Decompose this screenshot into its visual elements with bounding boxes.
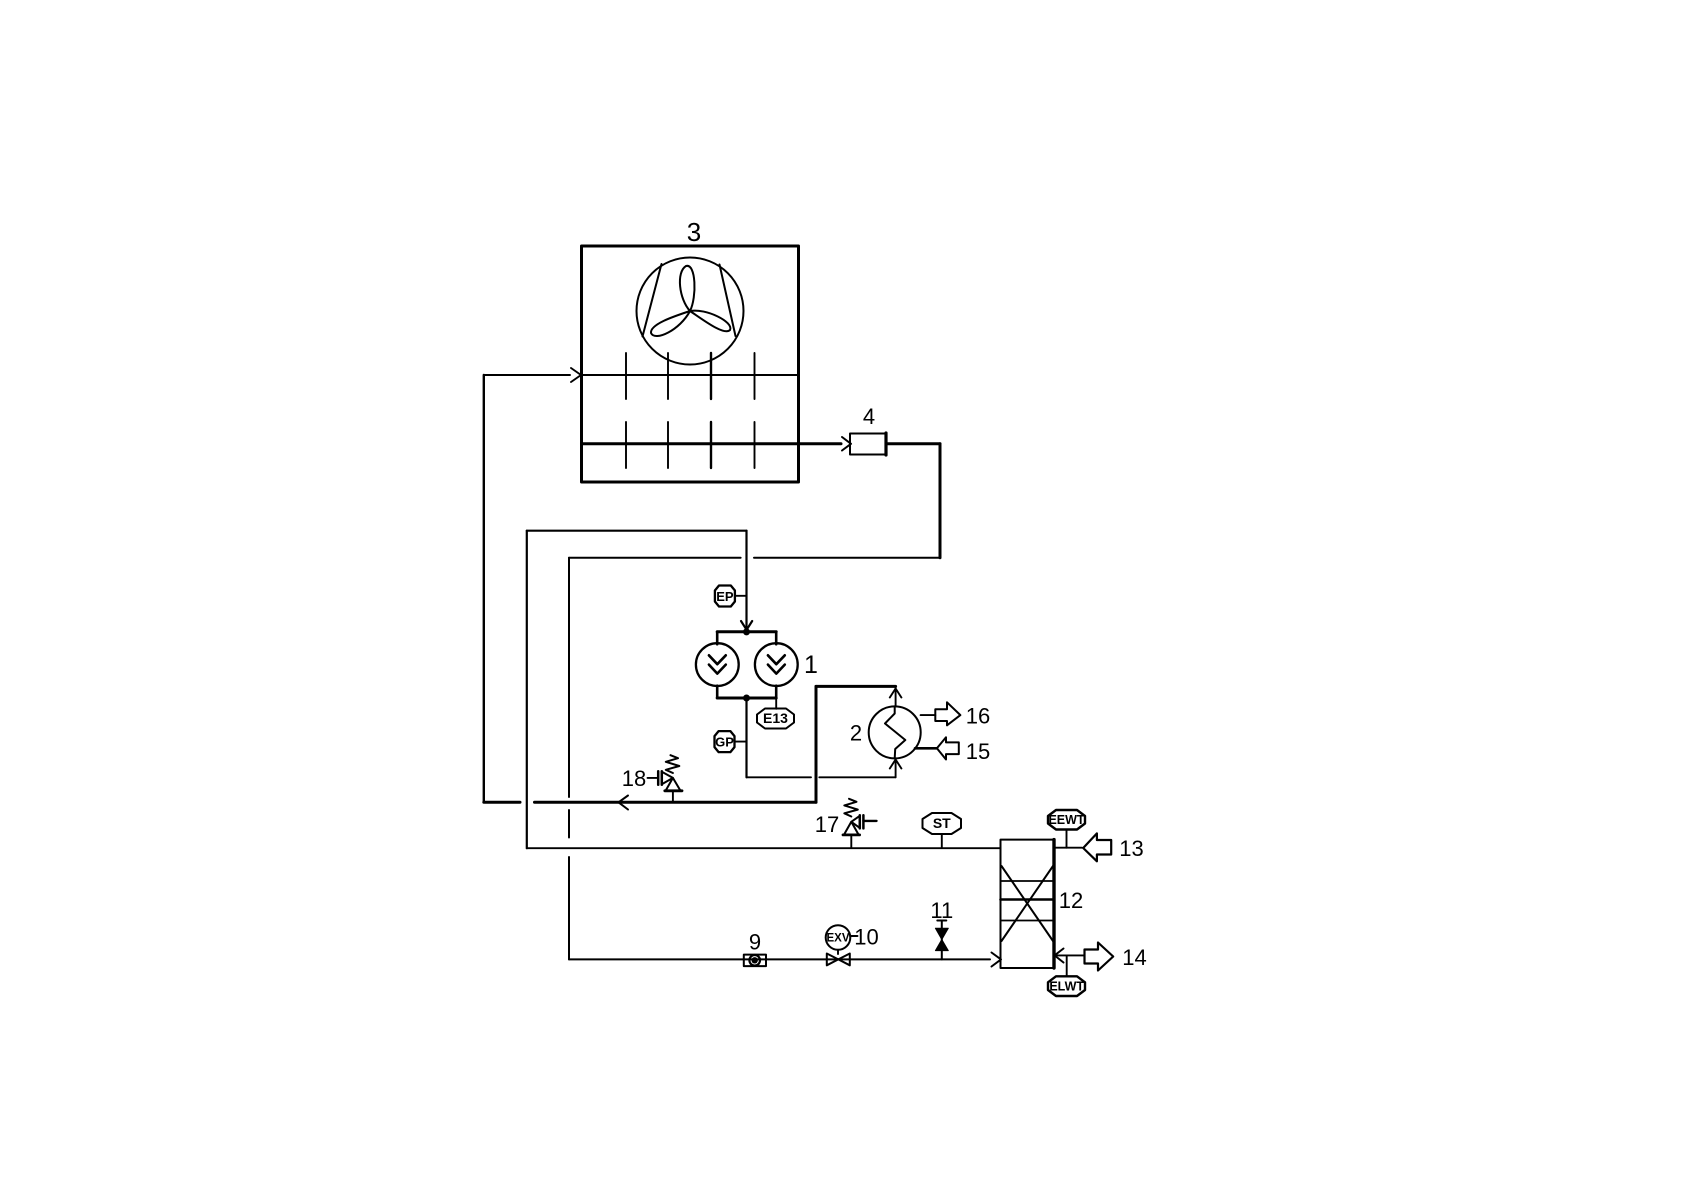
svg-text:2: 2: [850, 721, 862, 746]
svg-text:9: 9: [749, 930, 761, 955]
svg-text:13: 13: [1119, 836, 1143, 861]
svg-text:17: 17: [815, 812, 839, 837]
svg-text:18: 18: [622, 766, 646, 791]
svg-text:4: 4: [863, 404, 875, 429]
svg-text:ST: ST: [933, 815, 951, 831]
svg-text:11: 11: [930, 898, 953, 923]
svg-text:12: 12: [1059, 888, 1083, 913]
svg-text:15: 15: [966, 739, 990, 764]
svg-text:1: 1: [804, 651, 818, 679]
svg-text:EEWT: EEWT: [1048, 813, 1084, 827]
svg-text:3: 3: [687, 217, 701, 247]
svg-text:EXV: EXV: [826, 933, 849, 945]
svg-text:EP: EP: [716, 589, 734, 604]
svg-text:10: 10: [854, 925, 878, 950]
svg-text:16: 16: [966, 704, 990, 729]
svg-text:GP: GP: [715, 734, 734, 749]
svg-text:E13: E13: [763, 710, 788, 726]
svg-text:ELWT: ELWT: [1049, 980, 1084, 994]
svg-text:14: 14: [1122, 945, 1146, 970]
